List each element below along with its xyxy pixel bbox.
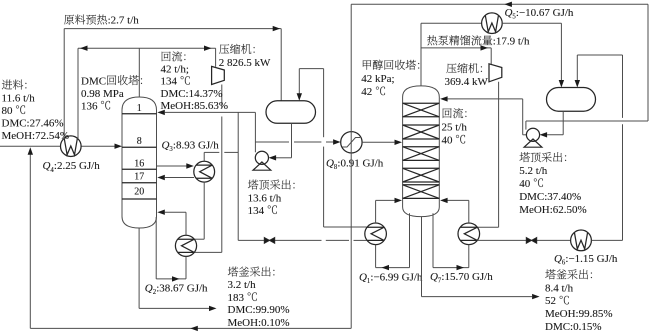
svg-text::2.7 t/h: :2.7 t/h bbox=[108, 15, 140, 27]
wire C1 bottoms draw to E2 bbox=[155, 217, 157, 279]
svg-text:MeOH:99.85%: MeOH:99.85% bbox=[545, 308, 613, 320]
wire reflux into C2 from pump P2 bbox=[448, 98, 523, 100]
wire E3 hot inlet from K1 header bbox=[203, 152, 205, 161]
svg-text::38.67 GJ/h: :38.67 GJ/h bbox=[156, 282, 208, 294]
svg-text::−1.15 GJ/h: :−1.15 GJ/h bbox=[565, 253, 618, 265]
svg-text::2.25 GJ/h: :2.25 GJ/h bbox=[54, 160, 100, 172]
svg-text:DMC:27.46%: DMC:27.46% bbox=[2, 117, 64, 129]
wire K2 discharge to E7 hot side bbox=[498, 82, 500, 227]
heat exchanger E6 after-cooler bbox=[571, 230, 592, 251]
wire letdown line through valve V1 to E1 bbox=[238, 239, 321, 241]
wire recycle bottom line to feed bbox=[30, 327, 351, 329]
label reflux 回流 C1 bbox=[162, 52, 171, 62]
svg-text:Q: Q bbox=[554, 253, 562, 265]
wire E3 return to C1 tray17 bbox=[165, 177, 194, 179]
svg-text:Q: Q bbox=[145, 282, 153, 294]
svg-text::8.93 GJ/h: :8.93 GJ/h bbox=[173, 140, 219, 152]
svg-text:Q: Q bbox=[326, 157, 334, 169]
svg-text:134: 134 bbox=[161, 76, 178, 88]
valve V1 letdown valve bbox=[264, 238, 269, 244]
svg-text::15.70 GJ/h: :15.70 GJ/h bbox=[441, 271, 493, 283]
svg-text:369.4 kW: 369.4 kW bbox=[445, 76, 489, 88]
svg-text:20: 20 bbox=[134, 186, 144, 197]
wire C1 bottoms product 塔釜采出 bbox=[139, 307, 209, 309]
heat exchanger E8 feed cross exchanger bbox=[341, 132, 362, 153]
svg-text:Q: Q bbox=[43, 160, 51, 172]
compressor K1 bbox=[212, 66, 225, 84]
wire E3 hot outlet down to E2 zigzag bbox=[203, 182, 205, 239]
svg-text:Q: Q bbox=[430, 271, 438, 283]
reflux drum D2 bbox=[547, 88, 596, 112]
heat exchanger E3 side reboiler bbox=[194, 161, 215, 182]
valve V2 bbox=[526, 238, 531, 244]
wire C2 bottoms to E7 bbox=[432, 213, 434, 267]
label 甲醇回收塔 operating data bbox=[363, 60, 371, 70]
wire C2 bottoms product 塔釜采出 bbox=[421, 217, 423, 297]
svg-text:MeOH:72.54%: MeOH:72.54% bbox=[2, 130, 70, 142]
wire recycle riser joining feed bbox=[29, 154, 31, 328]
svg-text:52: 52 bbox=[545, 295, 556, 307]
reflux drum D1 bbox=[266, 101, 316, 124]
wire E1 vapor return to C2 bbox=[375, 200, 377, 223]
wire feed line into C1 bbox=[0, 145, 61, 147]
wire C2 bottoms to E1 bbox=[409, 213, 411, 267]
label C1 bottoms 塔釜采出 bbox=[228, 267, 238, 277]
wire E7 hot outlet through valve V2 and cooler E6 bbox=[478, 239, 527, 241]
wire recycle to top header bbox=[526, 120, 648, 122]
wire C1 overhead vapor riser bbox=[138, 48, 140, 97]
svg-text:MeOH:0.10%: MeOH:0.10% bbox=[228, 317, 290, 329]
svg-text:2 826.5 kW: 2 826.5 kW bbox=[219, 57, 271, 69]
svg-text:40: 40 bbox=[442, 134, 454, 146]
heat exchanger E2 main reboiler C1 bbox=[175, 235, 196, 256]
svg-text:DMC:0.15%: DMC:0.15% bbox=[545, 321, 602, 333]
svg-text:136: 136 bbox=[81, 100, 98, 112]
wire E6 outlet up to drum D2 bbox=[591, 239, 622, 241]
label C1 distillate 塔顶采出 bbox=[248, 180, 258, 190]
svg-text:DMC: DMC bbox=[81, 75, 106, 87]
pump P2 bbox=[524, 139, 542, 147]
label feed stream 进料 bbox=[2, 80, 12, 90]
svg-text:8.4 t/h: 8.4 t/h bbox=[545, 282, 574, 294]
svg-text:42 t/h;: 42 t/h; bbox=[161, 64, 189, 76]
pump P1 bbox=[253, 162, 271, 170]
wire C1 tray16 draw to E3 bbox=[157, 165, 187, 167]
svg-text:40: 40 bbox=[519, 178, 531, 190]
svg-text:DMC:99.90%: DMC:99.90% bbox=[228, 304, 290, 316]
label reflux 回流 C2 bbox=[443, 108, 452, 118]
label C2 bottoms 塔釜采出 bbox=[545, 269, 555, 279]
label 压缩机 K2 bbox=[446, 63, 456, 73]
column C2 packing sections bbox=[403, 102, 440, 104]
heat exchanger E7 right reboiler C2 bbox=[458, 223, 480, 245]
svg-text:Q: Q bbox=[359, 272, 367, 284]
svg-text:8: 8 bbox=[137, 136, 142, 147]
svg-text::−10.67 GJ/h: :−10.67 GJ/h bbox=[516, 7, 574, 19]
wire letdown branch to valve V1 bbox=[237, 112, 239, 240]
svg-text:DMC:37.40%: DMC:37.40% bbox=[519, 191, 581, 203]
svg-text::0.91 GJ/h: :0.91 GJ/h bbox=[337, 157, 383, 169]
svg-text:0.98 MPa: 0.98 MPa bbox=[81, 88, 124, 100]
label 压缩机 K1 bbox=[219, 44, 229, 54]
compressor K2 bbox=[489, 64, 502, 82]
column C1 DMC回收塔 shell bbox=[122, 97, 157, 228]
svg-text:11.6 t/h: 11.6 t/h bbox=[2, 92, 36, 104]
svg-text:42: 42 bbox=[361, 86, 372, 98]
wire recycle top header to E8 bbox=[351, 3, 648, 5]
svg-text:80: 80 bbox=[2, 105, 14, 117]
wire E7 vapor return to C2 bbox=[468, 200, 470, 223]
svg-text:DMC:14.37%: DMC:14.37% bbox=[161, 88, 223, 100]
svg-text:25 t/h: 25 t/h bbox=[442, 121, 468, 133]
air cooler E5 trim condenser bbox=[482, 13, 503, 34]
svg-text:17: 17 bbox=[134, 172, 144, 183]
svg-text:MeOH:85.63%: MeOH:85.63% bbox=[161, 100, 229, 112]
label C2 distillate 塔顶采出 bbox=[520, 152, 530, 162]
svg-text::17.9 t/h: :17.9 t/h bbox=[493, 36, 530, 48]
wire preheat branch down to E4 bbox=[77, 48, 79, 139]
svg-text:134: 134 bbox=[248, 205, 265, 217]
svg-text:1: 1 bbox=[137, 103, 142, 114]
wire E8 to C2 feed nozzle bbox=[362, 141, 394, 143]
wire E5 outlet into drum D2 bbox=[502, 22, 561, 24]
wire D1 outlet to pump P1 bbox=[291, 123, 293, 158]
svg-text:13.6 t/h: 13.6 t/h bbox=[248, 192, 282, 204]
wire recycle down through E8 to bottom bbox=[350, 4, 352, 328]
wire C2 feed line from P1 bbox=[255, 141, 289, 143]
column C2 甲醇回收塔 shell bbox=[403, 86, 440, 217]
wire vapor to compressor K2 热泵精馏流量 bbox=[421, 47, 491, 49]
svg-text:3.2 t/h: 3.2 t/h bbox=[228, 279, 257, 291]
svg-text:42 kPa;: 42 kPa; bbox=[361, 73, 394, 85]
svg-text:16: 16 bbox=[134, 159, 144, 170]
wire P2 discharge recycle riser bbox=[525, 121, 527, 130]
wire C2 overhead vapor riser bbox=[420, 23, 422, 86]
svg-text:Q: Q bbox=[162, 140, 170, 152]
wire D2 outlet to pump P2 bbox=[562, 111, 564, 135]
wire C1 bottoms product line down bbox=[138, 228, 140, 308]
svg-text:MeOH:62.50%: MeOH:62.50% bbox=[519, 204, 587, 216]
wire reflux line into C1 top bbox=[165, 111, 256, 113]
wire overhead header to compressor K1 bbox=[78, 47, 216, 49]
svg-text:5.2 t/h: 5.2 t/h bbox=[519, 165, 548, 177]
heat exchanger E1 left reboiler C2 bbox=[365, 223, 387, 245]
wire hot condensate into D1 from E1 loop bbox=[298, 69, 300, 95]
wire E2 vapor return to C1 bbox=[185, 212, 187, 235]
label 原料预热 2.7 t/h bbox=[64, 15, 74, 25]
wire trim condenser line to E5 bbox=[421, 22, 482, 24]
svg-text:Q: Q bbox=[505, 7, 513, 19]
svg-text:183: 183 bbox=[228, 292, 245, 304]
wire E4 hot outlet up and over to drum D1 原料预热 bbox=[63, 29, 65, 139]
wire K1 discharge down to reboiler E2 hot side bbox=[221, 85, 223, 109]
wire P1 discharge riser bbox=[254, 112, 256, 152]
label 热泵精馏流量 17.9 t/h bbox=[427, 35, 437, 45]
heat exchanger E4 feed preheater bbox=[61, 136, 82, 157]
column C1 tray lines bbox=[122, 113, 157, 115]
svg-text::−6.99 GJ/h: :−6.99 GJ/h bbox=[370, 272, 423, 284]
wire E1 hot outlet return to D1 bbox=[324, 226, 367, 228]
